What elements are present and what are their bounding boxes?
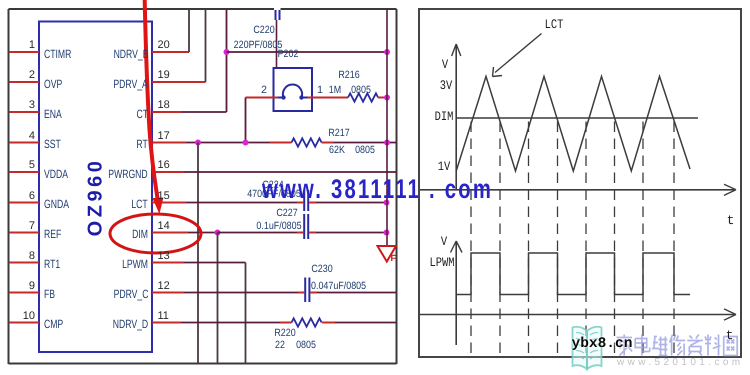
pin 17 RT stub wire [152, 142, 186, 144]
pin 12 number label [158, 281, 170, 292]
pin 9 FB stub wire [9, 292, 39, 294]
NDRV_D net wire [181, 322, 280, 324]
capacitor C220 value label [234, 40, 283, 51]
pin 13 name LPWM [122, 258, 148, 270]
pin 1 CTIMR stub wire [9, 51, 39, 53]
pin 18 name CT [136, 108, 148, 120]
P202 pin 1 wire [308, 97, 349, 99]
junction DIM riser-down [215, 230, 221, 236]
capacitor C230 name label [311, 264, 332, 275]
DIM net wire [188, 232, 218, 234]
junction DIM / vertical net [384, 230, 390, 236]
LCT net wire [186, 202, 297, 204]
pin 10 CMP stub wire [9, 322, 39, 324]
lower graph t label [726, 329, 734, 342]
upper axis label V [441, 58, 447, 71]
P202 pin 2 riser wire to RT net [245, 98, 247, 143]
junction R216 / vertical net [384, 95, 390, 101]
DIM net wire to node [316, 232, 387, 234]
PDRV_C net wire to right border [317, 292, 397, 294]
pin 15 number label [158, 191, 170, 202]
C220 net horizontal wire [227, 51, 388, 53]
pin 11 NDRV_D stub wire [152, 322, 181, 324]
pin 19 name PDRV_A [114, 78, 148, 90]
pin 8 number label [29, 251, 35, 262]
junction RT / P202 riser [243, 140, 249, 146]
resistor R217 name label [328, 128, 349, 139]
dashed guide lines at DIM crossings [470, 122, 472, 357]
power flag F label [391, 254, 397, 263]
pin 4 number label [29, 131, 35, 142]
PDRV_C red segment at C230 [298, 292, 304, 294]
waveform panel frame [419, 9, 741, 357]
pin 14 DIM stub wire [152, 232, 188, 234]
pin 3 number label [29, 100, 35, 111]
NDRV_D net wire to right border [335, 322, 397, 324]
CT riser wire to top border [226, 9, 228, 112]
pin 5 name VDDA [44, 168, 68, 180]
chinese watermark text (stylized strokes) [617, 335, 738, 356]
NDRV_D red segment after R220 [322, 322, 335, 324]
pin 18 number label [158, 100, 170, 111]
P202 lamp omega arc symbol [283, 85, 302, 98]
blue watermark www. 3811111 . com [262, 176, 493, 203]
pin 14 name DIM [132, 228, 148, 240]
pin 20 NDRV_B stub wire [152, 51, 189, 53]
capacitor C224 value label [247, 189, 301, 200]
pin 6 GNDA stub wire [9, 202, 39, 204]
LCT red segment after C224 [309, 202, 316, 204]
capacitor C227 value label [256, 221, 301, 232]
pin 3 ENA stub wire [9, 111, 39, 113]
pin 5 VDDA stub wire [9, 171, 39, 173]
pin 6 number label [29, 191, 35, 202]
RT net wire [186, 142, 270, 144]
RT net wire to right border [334, 142, 397, 144]
resistor R217 value 62K [329, 145, 345, 156]
lower axis label LPWM [430, 256, 455, 269]
P202 pin 2 inner stub [278, 97, 284, 99]
DIM threshold line [456, 117, 698, 119]
pin 7 number label [29, 221, 35, 232]
pin 16 name PWRGND [109, 168, 148, 180]
pin 10 name CMP [44, 318, 63, 330]
pin 4 SST stub wire [9, 142, 39, 144]
pin 19 number label [158, 70, 170, 81]
junction on CT riser at C220 net [224, 49, 230, 55]
resistor R217 zigzag [292, 138, 322, 146]
P202 pin 1 label [317, 85, 323, 96]
pin 14 number label [158, 221, 170, 232]
P202 left terminal [281, 95, 285, 99]
DIM red segment after C227 [309, 232, 316, 234]
pin 20 riser wire to top border [188, 9, 190, 52]
pin 1 name CTIMR [44, 48, 71, 60]
vertical wire from LPWM down to bottom [245, 263, 247, 364]
pin 18 CT stub wire [152, 111, 181, 113]
PWRGND net wire to right border [184, 171, 397, 173]
pin 17 name RT [137, 138, 148, 150]
capacitor C227 name label [276, 208, 297, 219]
lamp connector P202 box [274, 68, 313, 111]
capacitor C227 plates [303, 214, 305, 239]
pin 5 number label [29, 160, 35, 171]
pin 8 name RT1 [44, 258, 60, 270]
left schematic panel frame [9, 8, 275, 10]
resistor R220 name label [274, 328, 295, 339]
power flag F triangle [378, 246, 397, 262]
capacitor C224 plates [303, 190, 305, 211]
vertical wire from DIM down to bottom [217, 233, 219, 364]
capacitor C220 name label [253, 25, 274, 36]
red annotation arrow curve to DIM pin [145, 0, 158, 199]
pin 12 PDRV_C stub wire [152, 292, 184, 294]
LCT net wire to node [316, 202, 387, 204]
pin 13 number label [158, 251, 170, 262]
resistor R220 value 22 [275, 340, 285, 351]
junction C220 net / right vertical net [384, 49, 390, 55]
pin 7 REF stub wire [9, 232, 39, 234]
pin 11 number label [158, 311, 169, 322]
red annotation ellipse around DIM pin [110, 214, 201, 253]
LPWM square waveform [456, 253, 690, 295]
PDRV_C net wire [184, 292, 298, 294]
pin 11 name NDRV_D [113, 318, 148, 330]
RT red segment before R217 [270, 142, 292, 144]
resistor R216 zigzag [348, 93, 378, 101]
upper axis label 1V [437, 160, 449, 173]
pin 12 name PDRV_C [113, 288, 148, 300]
upper graph t label [727, 214, 735, 227]
RT red segment after R217 [322, 142, 334, 144]
pin 20 number label [158, 40, 170, 51]
capacitor C230 plates [304, 278, 306, 303]
P202 pin 1 inner stub [302, 97, 308, 99]
pin 1 number label [29, 40, 35, 51]
pin 20 name NDRV_B [113, 48, 148, 60]
IC U1 OZ960 rotated name label [85, 158, 108, 237]
watermark ybx8.cn [572, 337, 633, 352]
P202 pin 2 label [261, 85, 267, 96]
watermark www.520101.com [617, 358, 744, 368]
upper graph V axis [455, 45, 457, 190]
resistor R216 size 0805 [351, 85, 371, 96]
vertical wire from RT down to bottom [197, 143, 199, 364]
pin 19 PDRV_A stub wire [152, 81, 206, 83]
LCT red segment at C224 [297, 202, 303, 204]
junction RT riser-down [195, 140, 201, 146]
pin 15 LCT stub wire [152, 202, 186, 204]
upper axis label 3V [439, 79, 451, 92]
DIM red segment at C227 [297, 232, 303, 234]
book icon watermark [573, 327, 602, 369]
NDRV_D red segment before R220 [280, 322, 292, 324]
resistor R220 size 0805 [296, 340, 316, 351]
pin 3 name ENA [44, 108, 62, 120]
pin 8 RT1 stub wire [9, 262, 39, 264]
LCT callout arrow [495, 34, 542, 73]
P202 right terminal [299, 95, 303, 99]
pin 6 name GNDA [44, 198, 69, 210]
junction RT / vertical net [384, 140, 390, 146]
pin 9 name FB [44, 288, 55, 300]
C220 lead wire down to P202 [276, 20, 278, 68]
PDRV_C red segment after C230 [310, 292, 317, 294]
pin 9 number label [29, 281, 35, 292]
upper graph t axis [420, 189, 735, 191]
resistor R217 size 0805 [355, 145, 375, 156]
LPWM net wire [184, 262, 246, 264]
pin 2 number label [29, 70, 35, 81]
pin 19 riser wire to top border [205, 9, 207, 82]
pin 4 name SST [44, 138, 61, 150]
pin 18 CT net wire [181, 111, 227, 113]
P202 pin 2 wire [246, 97, 279, 99]
pin 7 name REF [44, 228, 61, 240]
junction LCT / vertical net [384, 200, 390, 206]
lower graph V axis [455, 242, 457, 345]
pin 2 OVP stub wire [9, 81, 39, 83]
lower graph t axis [420, 314, 735, 316]
IC U1 OZ960 body [39, 22, 152, 353]
capacitor C224 name label [262, 180, 283, 191]
LCT triangle waveform [456, 76, 690, 171]
pin 2 name OVP [44, 78, 62, 90]
lower axis label V [441, 235, 447, 248]
pin 16 PWRGND stub wire [152, 171, 184, 173]
capacitor C230 value label [311, 281, 366, 292]
R216 wire to node [378, 97, 387, 99]
resistor R216 value 1M [329, 85, 341, 96]
pin 13 LPWM stub wire [152, 262, 184, 264]
right vertical net wire [386, 9, 388, 246]
pin 16 number label [158, 160, 170, 171]
DIM net wire middle [218, 232, 298, 234]
pin 17 number label [158, 131, 170, 142]
resistor R216 name label [338, 70, 359, 81]
pin 15 name LCT [132, 198, 148, 210]
capacitor C220 plates [275, 10, 277, 20]
upper axis label DIM [435, 110, 454, 123]
resistor R220 zigzag [292, 318, 322, 326]
pin 10 number label [23, 311, 35, 322]
P202 name label [278, 49, 299, 60]
LCT callout label [544, 18, 563, 31]
